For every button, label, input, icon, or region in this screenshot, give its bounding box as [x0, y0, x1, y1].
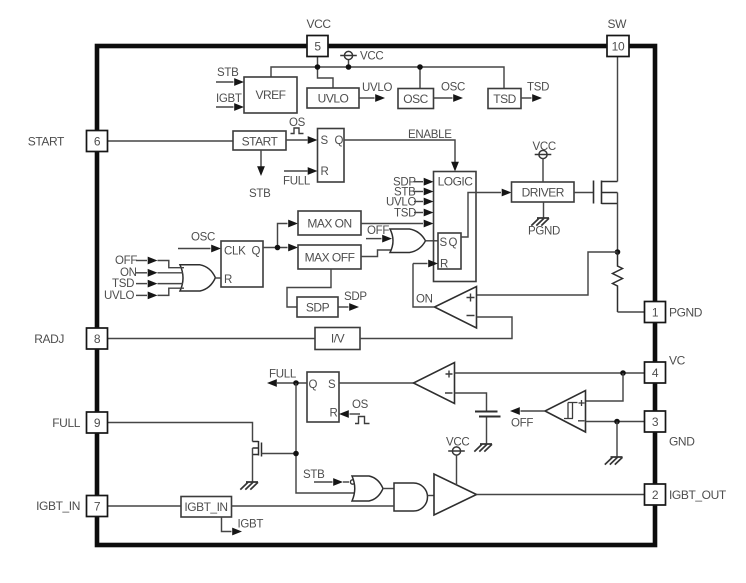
svg-text:I/V: I/V	[331, 332, 345, 346]
block VREF	[244, 77, 297, 113]
capacitor	[475, 412, 501, 417]
svg-text:VREF: VREF	[255, 88, 285, 102]
svg-text:PGND: PGND	[669, 306, 703, 320]
svg-text:S: S	[321, 135, 329, 147]
flip-flop start SR latch	[318, 129, 345, 183]
svg-text:TSD: TSD	[112, 278, 134, 290]
signal UVLO into LOGIC	[386, 197, 434, 209]
svg-text:IGBT_IN: IGBT_IN	[36, 499, 80, 513]
svg-text:OS: OS	[289, 117, 306, 129]
svg-text:VCC: VCC	[533, 141, 556, 153]
wire or-gate-off output to latch S	[426, 240, 439, 242]
wire SW drain to pin10	[617, 57, 619, 182]
svg-text:5: 5	[314, 40, 321, 54]
wire resistor to pin1	[618, 311, 645, 313]
power symbol VCC above DRIVER	[533, 141, 556, 182]
wire or-gate output to R	[215, 277, 221, 279]
svg-text:FULL: FULL	[52, 416, 80, 430]
or-gate off/maxoff	[390, 229, 426, 253]
svg-text:VCC: VCC	[446, 437, 469, 449]
and-gate output	[394, 483, 428, 511]
pin 8 RADJ	[34, 328, 107, 349]
resistor sense	[613, 252, 623, 312]
wire LOGIC to DRIVER	[476, 189, 512, 197]
svg-text:SW: SW	[608, 17, 628, 31]
svg-text:VCC: VCC	[307, 17, 332, 31]
svg-text:TSD: TSD	[394, 208, 416, 220]
wire OSC tap	[419, 67, 421, 89]
svg-text:R: R	[330, 408, 338, 420]
block MAX ON	[298, 211, 361, 235]
wire ON output to latch R	[413, 264, 435, 308]
svg-text:PGND: PGND	[528, 226, 560, 238]
ground GND node	[605, 457, 623, 465]
wire pin6 to START	[108, 140, 234, 142]
wire pin9 to transistor	[108, 423, 253, 442]
wire latch R input	[413, 260, 438, 268]
wire MAX OFF to or-gate-off	[361, 250, 392, 257]
svg-text:OSC: OSC	[191, 232, 215, 244]
wire MAX ON to LOGIC	[361, 220, 434, 228]
svg-text:ENABLE: ENABLE	[408, 129, 452, 141]
node rail-osc	[417, 64, 423, 70]
node CLK Q	[275, 245, 281, 251]
signal OSC output	[434, 82, 466, 102]
svg-text:1: 1	[652, 306, 659, 320]
flip-flop latch in LOGIC	[438, 233, 461, 271]
svg-text:S: S	[440, 237, 448, 249]
node sense	[615, 249, 621, 255]
wire MAX OFF to SDP	[287, 269, 331, 307]
svg-text:Q: Q	[252, 246, 261, 258]
block I/V	[315, 328, 360, 350]
flip-flop FULL latch	[307, 372, 339, 422]
svg-text:S: S	[328, 379, 336, 391]
svg-text:Q: Q	[335, 135, 344, 147]
transistor power MOSFET	[594, 181, 618, 205]
svg-text:TSD: TSD	[527, 82, 549, 94]
wire or-gate to and-gate	[383, 488, 394, 490]
svg-text:IGBT: IGBT	[238, 519, 264, 531]
svg-text:START: START	[28, 135, 65, 149]
signal STB down from START	[249, 150, 271, 200]
comparator ON	[416, 287, 477, 329]
pin 1 PGND	[645, 302, 703, 323]
svg-text:IGBT: IGBT	[216, 93, 242, 105]
svg-text:3: 3	[652, 415, 659, 429]
signal OSC into CLK latch	[178, 232, 221, 253]
svg-text:IGBT_OUT: IGBT_OUT	[669, 488, 727, 502]
wire buffer to pin2	[477, 494, 645, 496]
wire UVLO tap	[318, 67, 334, 88]
svg-text:MAX OFF: MAX OFF	[305, 251, 355, 265]
pin 4 VC	[645, 354, 686, 384]
node rail-pin5	[315, 64, 321, 70]
svg-text:OFF: OFF	[367, 225, 389, 237]
signal OS into FULL latch R	[339, 399, 370, 424]
wire DRIVER to gate	[574, 192, 594, 194]
wire comparator plus to pin4	[455, 372, 645, 374]
signal SDP output	[338, 291, 367, 311]
svg-text:UVLO: UVLO	[318, 92, 349, 106]
wire latch S from comparator	[339, 382, 414, 384]
signal TSD output	[521, 82, 549, 102]
wire FULL branch down to or-gate	[296, 383, 355, 493]
block OSC	[398, 89, 434, 109]
or-gate 4-input	[180, 265, 215, 291]
wire pin5 stub	[317, 57, 319, 68]
svg-text:8: 8	[94, 332, 101, 346]
signal SDP into LOGIC	[393, 177, 434, 189]
wire source down to sense node	[617, 193, 619, 253]
block MAX OFF	[298, 245, 361, 269]
signal FULL into latch R	[283, 167, 318, 187]
svg-text:OSC: OSC	[403, 92, 428, 106]
svg-text:R: R	[224, 274, 232, 286]
wire capacitor to ground	[486, 418, 488, 445]
svg-text:OS: OS	[352, 399, 369, 411]
svg-text:R: R	[321, 166, 329, 178]
pin 5 VCC	[307, 17, 332, 57]
svg-text:LOGIC: LOGIC	[438, 175, 474, 189]
wire pin7 to IGBT_IN	[108, 505, 182, 507]
wire I/V to ON comparator minus	[360, 317, 512, 339]
or-gate output	[350, 476, 383, 501]
svg-text:VC: VC	[669, 354, 686, 368]
wire VC node down to OFF comparator plus	[586, 373, 624, 401]
svg-text:ON: ON	[416, 294, 433, 306]
wire transistor gate to FULL node	[262, 453, 297, 455]
wire START to latch S	[286, 136, 318, 144]
svg-text:Q: Q	[309, 379, 318, 391]
node GND	[614, 419, 620, 425]
signal IGBT tap	[222, 517, 264, 535]
signal UVLO into or-gate	[104, 288, 184, 302]
svg-text:UVLO: UVLO	[104, 290, 134, 302]
pin 9 FULL	[52, 412, 107, 433]
wire CLK Q branch to MAX ON	[278, 220, 299, 248]
power symbol VCC above buffer	[446, 437, 469, 486]
power symbol VCC rail	[340, 51, 383, 63]
svg-text:MAX ON: MAX ON	[307, 217, 351, 231]
signal OFF into or-gate-off	[366, 225, 392, 243]
svg-text:2: 2	[652, 488, 659, 502]
node gate	[293, 451, 299, 457]
signal STB into VREF	[216, 67, 244, 86]
wire sense to ON comparator plus	[477, 252, 618, 295]
signal IGBT into VREF	[216, 93, 244, 111]
svg-text:GND: GND	[669, 435, 695, 449]
svg-text:10: 10	[612, 40, 625, 54]
ground transistor	[240, 482, 258, 490]
signal FULL output arrow	[267, 369, 307, 387]
svg-text:TSD: TSD	[493, 92, 516, 106]
svg-text:UVLO: UVLO	[362, 82, 392, 94]
chip boundary	[97, 46, 655, 545]
signal STB into LOGIC	[394, 187, 434, 199]
comparator VC	[414, 363, 455, 404]
flip-flop CLK latch	[221, 241, 263, 287]
wire VCC symbol stub	[348, 60, 350, 68]
node rail-vcc	[346, 64, 352, 70]
svg-text:DRIVER: DRIVER	[522, 186, 565, 200]
wire comparator minus to capacitor	[455, 393, 487, 411]
wire RADJ to I/V	[108, 338, 316, 340]
node VC	[620, 370, 626, 376]
pin 6 START	[28, 131, 108, 152]
node FULL branch	[293, 380, 299, 386]
block TSD	[488, 89, 521, 109]
svg-text:STB: STB	[217, 67, 239, 79]
svg-text:FULL: FULL	[283, 176, 311, 188]
wire IGBT_IN to and-gate	[232, 505, 395, 507]
signal TSD into LOGIC	[394, 208, 434, 220]
svg-text:START: START	[242, 135, 279, 149]
block LOGIC	[434, 172, 477, 282]
svg-text:FULL: FULL	[269, 369, 297, 381]
svg-text:OFF: OFF	[511, 418, 533, 430]
svg-text:CLK: CLK	[224, 246, 246, 258]
signal TSD into or-gate	[112, 278, 183, 290]
svg-text:STB: STB	[249, 188, 271, 200]
svg-text:R: R	[440, 259, 448, 271]
signal OFF output arrow	[510, 407, 545, 429]
wire CLK Q to MAX OFF	[263, 244, 298, 252]
wire VCC rail	[271, 67, 504, 89]
svg-text:6: 6	[94, 135, 101, 149]
signal UVLO output	[359, 82, 392, 102]
svg-text:Q: Q	[449, 237, 458, 249]
svg-text:OSC: OSC	[441, 82, 465, 94]
svg-text:IGBT_IN: IGBT_IN	[184, 500, 227, 514]
svg-text:RADJ: RADJ	[34, 332, 64, 346]
buffer output driver	[434, 474, 477, 515]
signal STB into or-gate	[303, 469, 349, 486]
svg-text:7: 7	[94, 500, 101, 514]
signal OS pulse at S	[289, 117, 306, 134]
pin 10 SW	[607, 17, 629, 57]
pin 2 IGBT_OUT	[645, 484, 727, 505]
block DRIVER	[512, 182, 575, 202]
svg-text:OFF: OFF	[115, 255, 137, 267]
svg-text:SDP: SDP	[344, 291, 367, 303]
signal ON into or-gate	[120, 267, 183, 279]
block SDP	[297, 297, 338, 317]
svg-text:4: 4	[652, 366, 659, 380]
pin 7 IGBT_IN	[36, 496, 107, 517]
wire OFF comparator minus to pin3	[586, 421, 645, 423]
wire latch Q internal	[461, 193, 476, 238]
svg-text:SDP: SDP	[306, 301, 330, 315]
pin 3 GND	[645, 411, 696, 449]
block IGBT_IN	[181, 497, 232, 518]
comparator OFF hysteresis	[545, 391, 586, 433]
signal OFF into or-gate	[115, 255, 184, 268]
svg-text:STB: STB	[303, 469, 325, 481]
wire transistor source to ground	[252, 448, 254, 482]
svg-text:9: 9	[94, 416, 101, 430]
ground capacitor	[474, 444, 492, 452]
block UVLO	[307, 88, 359, 108]
wire GND node to ground	[616, 422, 618, 458]
block START	[233, 131, 286, 150]
wire ENABLE to LOGIC	[344, 129, 459, 172]
wire and-gate to buffer	[428, 495, 435, 497]
transistor FULL pulldown	[253, 441, 262, 457]
svg-text:VCC: VCC	[360, 51, 383, 63]
ground PGND below DRIVER	[528, 202, 560, 238]
